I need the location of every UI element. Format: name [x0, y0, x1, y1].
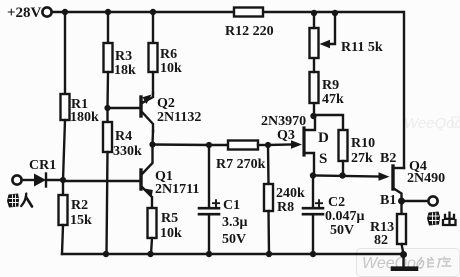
svg-text:C2: C2	[328, 195, 345, 210]
svg-text:S: S	[319, 151, 327, 167]
svg-text:50V: 50V	[330, 223, 354, 238]
watermark box bottom right	[357, 249, 460, 277]
capacitor C1	[208, 145, 210, 207]
watermark faint middle right	[404, 115, 460, 132]
resistor R12	[234, 8, 263, 17]
resistor R3	[107, 12, 109, 43]
wire R4 down to ground rail	[107, 152, 108, 254]
resistor R6	[152, 12, 154, 43]
arrow emitter Q4	[379, 172, 390, 181]
svg-text:R7 270k: R7 270k	[216, 157, 266, 172]
svg-text:47k: 47k	[322, 92, 344, 107]
arrow gate Q3	[291, 140, 302, 149]
svg-text:82: 82	[374, 233, 388, 248]
svg-text:D: D	[318, 130, 329, 146]
wire source rail	[313, 176, 380, 177]
svg-text:10k: 10k	[160, 226, 182, 241]
svg-text:R6: R6	[160, 47, 177, 62]
svg-text:R11 5k: R11 5k	[341, 40, 383, 55]
wire bottom rail	[62, 253, 404, 255]
resistor R7	[209, 144, 228, 146]
resistor R1	[64, 12, 66, 94]
node Q2 base	[104, 105, 110, 111]
node CR1/R2	[60, 177, 66, 183]
JFET Q3	[302, 128, 305, 155]
node collector	[149, 141, 155, 147]
node bottom rail dots	[103, 251, 109, 257]
wire output	[402, 200, 429, 202]
svg-text:2N1711: 2N1711	[155, 182, 199, 197]
svg-text:240k: 240k	[276, 186, 305, 201]
resistor R2	[62, 180, 64, 195]
node R7/R8	[265, 142, 271, 148]
arrow emitter Q2 (PNP, points toward base bar)	[143, 95, 152, 105]
arrow emitter Q1 (NPN, points outward)	[145, 189, 153, 199]
wire gate Q3	[268, 143, 292, 146]
svg-text:2N1132: 2N1132	[157, 110, 201, 125]
polarity plus C2	[315, 199, 323, 207]
diode CR1	[12, 175, 21, 184]
resistor R9	[313, 103, 315, 116]
svg-text:10k: 10k	[160, 61, 182, 76]
resistor R13	[400, 201, 402, 214]
resistor R5	[148, 208, 157, 238]
node R10 bottom	[339, 172, 345, 178]
svg-text:18k: 18k	[114, 63, 136, 78]
label 输入 (input) drawn as dense glyph blobs	[7, 194, 32, 208]
svg-text:3.3μ: 3.3μ	[222, 215, 248, 230]
node drain	[310, 113, 316, 119]
svg-text:180k: 180k	[70, 110, 99, 125]
svg-text:330k: 330k	[113, 144, 142, 159]
node B1 output	[398, 198, 405, 205]
svg-text:R2: R2	[71, 198, 88, 213]
svg-text:R4: R4	[115, 129, 132, 144]
top rail wire	[52, 11, 235, 13]
resistor R10	[316, 115, 343, 130]
transistor Q2	[139, 97, 142, 116]
svg-text:C1: C1	[223, 198, 240, 213]
svg-text:15k: 15k	[70, 213, 92, 228]
node source	[310, 172, 316, 178]
svg-text:R9: R9	[322, 78, 339, 93]
svg-text:R12 220: R12 220	[225, 24, 274, 39]
arrow rheostat R11	[320, 40, 331, 48]
node C1/R7	[206, 142, 212, 148]
svg-text:Q2: Q2	[157, 96, 175, 111]
svg-text:R8: R8	[277, 200, 294, 215]
transistor Q1	[139, 170, 142, 189]
label 输出 (output) drawn as dense glyph blobs	[427, 212, 456, 226]
svg-text:B1: B1	[380, 193, 396, 208]
svg-text:27k: 27k	[351, 151, 373, 166]
svg-text:2N3970: 2N3970	[261, 114, 306, 129]
svg-text:R3: R3	[115, 49, 132, 64]
svg-text:CR1: CR1	[29, 158, 56, 173]
svg-text:50V: 50V	[222, 232, 246, 247]
svg-text:R5: R5	[161, 211, 178, 226]
svg-text:Q3: Q3	[277, 128, 295, 143]
UJT Q4	[391, 166, 394, 189]
svg-text:2N490: 2N490	[407, 171, 445, 186]
resistor R4	[106, 108, 108, 122]
capacitor C2	[312, 176, 314, 208]
ground	[402, 254, 404, 267]
node top rail	[62, 9, 68, 15]
svg-text:+28V: +28V	[7, 5, 42, 21]
terminal +28V	[42, 7, 51, 16]
watermark 维库 glyphs	[419, 257, 452, 269]
resistor R8	[267, 145, 270, 184]
wire Q2 collector to node	[151, 131, 154, 144]
svg-text:0.047μ: 0.047μ	[325, 209, 365, 224]
diode CR1 triangle	[34, 174, 46, 187]
svg-text:B2: B2	[380, 151, 396, 166]
svg-text:R10: R10	[351, 136, 375, 151]
polarity plus C1	[212, 199, 323, 207]
wire collector node to R7	[153, 143, 210, 146]
rheostat R11	[310, 28, 319, 58]
